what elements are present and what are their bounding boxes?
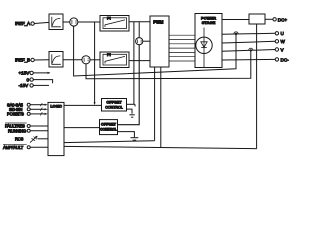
node +15V supply: [19, 71, 51, 76]
wire logic to offset control 2: [64, 127, 100, 129]
svg-text:-15V: -15V: [19, 83, 30, 88]
wire tap row1 to offset wire (arrow): [94, 22, 96, 105]
node -15V supply: [19, 83, 50, 88]
node DC- terminal: [275, 57, 289, 62]
wire offset control 2 to ground: [118, 132, 135, 138]
svg-text:OFFSET: OFFSET: [106, 100, 122, 105]
svg-text:+15V: +15V: [19, 71, 31, 76]
svg-text:DC+: DC+: [278, 17, 288, 22]
node AMPFAULT output: [3, 144, 48, 150]
svg-text:POSBITS: POSBITS: [7, 112, 24, 117]
wire S3 to PWM input 2: [143, 40, 150, 42]
node FAULTRES input: [5, 123, 48, 129]
svg-text:U: U: [281, 31, 284, 36]
wire IREF_A to filter F1: [34, 22, 49, 23]
summer S3 (third phase): [136, 38, 143, 45]
wire offset control 1 to ground G1: [127, 109, 133, 114]
wire IREF_B to filter F2: [34, 59, 49, 61]
wire row1 tap to summer S3: [138, 22, 140, 38]
PI controller A: [100, 16, 129, 32]
svg-text:STAGE: STAGE: [202, 20, 216, 25]
filter F2 (reference lowpass): [49, 52, 63, 68]
offset control 2 (U6): [100, 120, 118, 135]
wire sensor U feedback to summer S1: [74, 26, 236, 76]
svg-text:PWM: PWM: [153, 20, 164, 25]
node IREF_A input terminal: [15, 21, 34, 26]
logic block U4: [48, 102, 64, 155]
svg-text:CONTROL: CONTROL: [100, 128, 117, 132]
node U terminal: [275, 31, 284, 36]
wire bottom bus 1 (logic to PWM): [64, 141, 155, 143]
summer S2: [82, 56, 90, 64]
wire PI-A output to PWM input 1: [129, 21, 150, 23]
svg-text:0: 0: [27, 77, 30, 82]
PI controller B: [100, 52, 129, 68]
node 0V supply: [27, 77, 53, 83]
node RUNNING input: [8, 128, 48, 133]
svg-text:PI: PI: [107, 52, 111, 57]
wire DC+ shunt sense down to bottom bus: [256, 24, 258, 149]
ground G2: [131, 138, 139, 141]
wire PWM status line 1 down to logic: [154, 67, 156, 141]
summer S1: [70, 18, 78, 26]
svg-text:OFFSET: OFFSET: [101, 123, 117, 127]
current sensor T1 on phase U: [234, 32, 238, 35]
wire sensor V feedback to summer S2: [86, 50, 251, 78]
wire tap row1 down to offset control 1 wire: [134, 22, 135, 107]
resistor RCS (external, adjustable): [15, 136, 48, 143]
node W terminal: [275, 39, 285, 44]
wire PWM gate signals to power stage: [169, 35, 195, 61]
svg-text:RUNNING: RUNNING: [8, 128, 26, 133]
svg-text:W: W: [281, 39, 286, 44]
node SI0-SIN bus input: [9, 107, 48, 112]
wire S3 to row2 junction and down to offset control 2: [118, 45, 140, 125]
wire offset control 1 to row1 tap: [127, 103, 136, 105]
wire S1 to PI controller A: [78, 21, 100, 23]
node POSBITS bus input: [7, 112, 48, 117]
node DC+ terminal: [273, 17, 288, 22]
shunt R1 (DC link): [249, 14, 265, 24]
wire DC- output: [222, 58, 275, 61]
svg-text:DC-: DC-: [281, 57, 290, 62]
wire F2 to summer S2: [63, 59, 82, 61]
PWM block U2: [150, 16, 169, 67]
wire F1 to summer S1: [63, 21, 70, 23]
wire phase W output: [222, 41, 275, 43]
wire phase U output: [222, 33, 275, 34]
wire PWM status line 2 down to bottom bus: [160, 67, 162, 148]
wire PI-B output to PWM input 3: [129, 60, 150, 62]
current sensor T2 on phase V: [249, 48, 253, 51]
svg-text:CONTROL: CONTROL: [105, 106, 123, 110]
svg-text:RCS: RCS: [15, 136, 24, 141]
wire phase V output: [222, 50, 275, 52]
wire bottom bus 2 (logic to DC link sense): [64, 146, 257, 148]
filter F1 (reference lowpass): [49, 14, 63, 30]
wire logic to offset control 1: [64, 104, 102, 106]
svg-text:PI: PI: [107, 16, 111, 21]
svg-text:LOGIC: LOGIC: [50, 103, 62, 108]
svg-text:IREF_A: IREF_A: [15, 21, 31, 26]
transistor Q1 icon inside power stage: [196, 37, 212, 53]
wire S2 to PI controller B: [90, 59, 100, 61]
offset control 1 (U5): [102, 99, 127, 112]
wire shunt to DC+ terminal: [265, 18, 273, 20]
ground G1: [129, 115, 134, 117]
node IREF_B input terminal: [15, 58, 34, 63]
wire power stage to DC+ shunt: [222, 19, 249, 21]
node V terminal: [275, 47, 284, 52]
node SA0-SA5 bus input: [7, 102, 48, 107]
svg-text:AMPFAULT: AMPFAULT: [3, 145, 24, 150]
power stage U3: [195, 14, 222, 68]
svg-text:IREF_B: IREF_B: [15, 58, 30, 63]
